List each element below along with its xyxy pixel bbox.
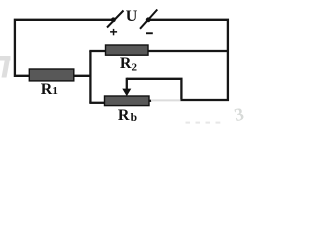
svg-text:U: U (126, 8, 138, 25)
